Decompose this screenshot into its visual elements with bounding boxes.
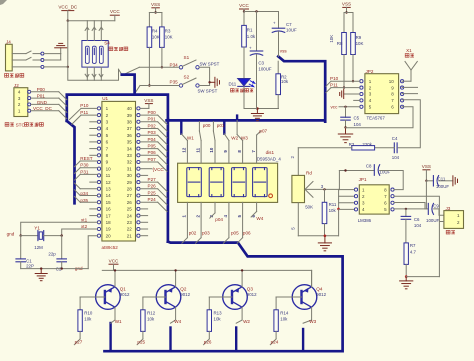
wire dis1 pin4 p05 <box>228 202 230 237</box>
svg-text:VCC: VCC <box>239 3 249 8</box>
wire R2 bottom <box>277 95 279 109</box>
svg-text:C6: C6 <box>414 217 420 222</box>
svg-text:R13: R13 <box>214 311 223 316</box>
junction dot <box>40 267 42 269</box>
junction dot <box>148 84 150 86</box>
J4 pin 1 wire <box>12 53 26 55</box>
wire pin10 P30 <box>80 167 97 169</box>
S4 element 1 <box>85 46 89 63</box>
S4 bottom wire 1 <box>86 67 88 80</box>
svg-text:P07: P07 <box>148 157 157 162</box>
label 供电输入 <box>5 74 9 78</box>
svg-text:P27: P27 <box>148 177 157 182</box>
wire R11 bottom <box>324 224 326 236</box>
wire J4 row3 to VCC_DC rail <box>44 66 68 68</box>
wire gnd stem <box>256 109 258 114</box>
svg-text:p03: p03 <box>202 231 210 236</box>
bus stub W1 <box>180 120 182 133</box>
wire P01 <box>140 121 158 123</box>
wire pin20 gnd <box>88 236 97 269</box>
ground <box>405 277 407 281</box>
svg-text:U1: U1 <box>102 96 108 101</box>
svg-text:P34: P34 <box>170 62 179 67</box>
wire VCC rail right end <box>311 270 313 287</box>
wire Q4 base <box>276 296 301 298</box>
svg-text:29: 29 <box>127 180 133 185</box>
svg-text:31: 31 <box>127 166 133 171</box>
svg-text:10k: 10k <box>84 317 92 322</box>
junction dot <box>161 66 163 68</box>
svg-text:P26: P26 <box>148 184 157 189</box>
svg-text:4.7: 4.7 <box>410 250 417 255</box>
wire J4 row2 stub <box>44 59 61 61</box>
ground <box>251 113 263 115</box>
wire R10 bottom p27 <box>79 331 81 339</box>
svg-text:12M: 12M <box>34 245 43 250</box>
wire dis1 pin9 W2 <box>228 141 230 164</box>
svg-text:W3: W3 <box>241 136 248 141</box>
wire Q4 collector <box>311 307 313 320</box>
U1 right pin contacts <box>137 107 140 110</box>
svg-text:p24: p24 <box>271 340 279 345</box>
svg-text:22p: 22p <box>48 252 56 257</box>
bus display horizontal <box>167 56 326 241</box>
label 预留STC下载接口 <box>5 123 9 127</box>
svg-text:25: 25 <box>127 207 133 212</box>
S4 element 2 <box>92 46 96 63</box>
svg-text:Q2: Q2 <box>180 286 187 291</box>
wire JP1 pin6 <box>394 203 425 209</box>
wire R12 bottom p25 <box>142 331 144 339</box>
wire P03 <box>140 134 158 136</box>
U1 pin17 stub <box>90 215 98 217</box>
S4 bottom wire 3 <box>100 67 102 80</box>
junction dot <box>243 10 245 12</box>
transistor Q4 <box>292 285 317 310</box>
U1 pins 3-8 stubs <box>90 121 98 123</box>
wire VCC rail <box>244 11 279 13</box>
svg-text:Q4: Q4 <box>316 286 323 291</box>
transistor Q1 <box>96 285 121 310</box>
wire to bus <box>119 69 122 74</box>
svg-text:R14: R14 <box>280 311 289 316</box>
capacitor C8 <box>339 170 374 172</box>
svg-text:P02: P02 <box>148 123 157 128</box>
capacitor C4 <box>393 143 395 153</box>
svg-text:100UF: 100UF <box>258 66 271 71</box>
wire Q3 collector <box>241 307 243 320</box>
wire VCC_DC vertical rail <box>67 21 69 67</box>
wire S1 S2 common <box>199 67 209 85</box>
svg-text:SW SPST: SW SPST <box>198 89 218 94</box>
svg-text:vss: vss <box>280 48 288 53</box>
Rd wiper arrow <box>305 182 313 190</box>
svg-text:28: 28 <box>127 187 133 192</box>
wire JP2 pin6 audio <box>346 107 414 128</box>
resistor R11 <box>324 189 326 202</box>
junction dot <box>337 208 340 211</box>
svg-text:R4: R4 <box>152 29 158 34</box>
svg-text:VSS: VSS <box>151 2 160 7</box>
svg-text:P24: P24 <box>148 197 157 202</box>
svg-text:vcc: vcc <box>331 105 339 110</box>
svg-text:220k: 220k <box>362 142 372 147</box>
svg-text:37: 37 <box>127 126 133 131</box>
wire R4 bottom <box>148 47 150 85</box>
wire C9 to J3 <box>434 209 444 215</box>
svg-text:R8: R8 <box>337 41 343 46</box>
bus Q4 stub <box>302 329 304 351</box>
svg-text:xt1: xt1 <box>81 217 88 222</box>
wire Q2 emitter <box>175 270 177 286</box>
bus display bottom <box>105 242 343 352</box>
bus P3x top <box>122 75 135 95</box>
svg-text:TEA5767: TEA5767 <box>367 115 386 120</box>
bus stub small <box>236 116 238 121</box>
resistor R1 <box>243 12 245 26</box>
svg-text:23: 23 <box>127 220 133 225</box>
wire R13 bottom p26 <box>208 331 210 339</box>
svg-text:X1: X1 <box>406 48 412 53</box>
svg-text:R3: R3 <box>165 29 171 34</box>
wire VCC rail <box>102 269 311 271</box>
svg-text:{VCC: {VCC <box>153 167 165 172</box>
svg-text:P06: P06 <box>148 150 157 155</box>
svg-text:xt2: xt2 <box>81 224 88 229</box>
svg-text:p02: p02 <box>189 231 197 236</box>
bus left jog <box>67 121 75 203</box>
svg-text:P35: P35 <box>170 79 179 84</box>
svg-text:14: 14 <box>106 193 112 198</box>
svg-text:22P: 22P <box>26 264 34 269</box>
wire net P11 <box>331 87 360 89</box>
wire JP1 pin5 <box>394 208 428 210</box>
junction dot <box>154 11 156 13</box>
svg-text:p27: p27 <box>75 340 83 345</box>
J4 pin 2 contact <box>41 59 44 62</box>
svg-text:D11: D11 <box>229 81 237 86</box>
junction dot <box>20 234 22 236</box>
wire net P34 <box>139 66 179 68</box>
wire gnd stem <box>40 269 42 274</box>
wire JP2 pin3 <box>345 93 360 95</box>
wire net P01 <box>31 97 59 99</box>
svg-text:p07: p07 <box>259 129 267 134</box>
svg-text:20: 20 <box>106 233 112 238</box>
svg-text:VSS: VSS <box>144 98 153 103</box>
svg-text:VCC: VCC <box>110 9 120 14</box>
wire pin2 P11 <box>81 114 97 116</box>
svg-text:104: 104 <box>354 122 362 127</box>
transistor Q3 <box>223 285 248 310</box>
wire P24 <box>140 201 158 203</box>
svg-text:100UF: 100UF <box>426 218 439 223</box>
svg-text:C9: C9 <box>433 203 439 208</box>
svg-text:10K: 10K <box>152 34 160 39</box>
svg-text:100UF: 100UF <box>436 184 449 189</box>
svg-text:W1: W1 <box>115 319 122 324</box>
svg-text:VSS: VSS <box>422 164 431 169</box>
junction dot <box>344 106 346 108</box>
junction dot <box>323 188 325 190</box>
svg-text:R11: R11 <box>329 202 337 207</box>
svg-text:104: 104 <box>414 223 422 228</box>
svg-text:C7: C7 <box>286 22 292 27</box>
svg-text:9012: 9012 <box>316 292 326 297</box>
capacitor C2 <box>61 236 63 259</box>
resistor R4 <box>148 13 150 27</box>
svg-text:W2: W2 <box>231 136 238 141</box>
junction dot <box>208 81 210 83</box>
wire dis1 pin5 p06 <box>242 202 244 237</box>
svg-text:10k: 10k <box>147 317 155 322</box>
svg-text:R10: R10 <box>84 311 93 316</box>
svg-text:11: 11 <box>195 147 200 152</box>
svg-text:S4: S4 <box>104 41 110 46</box>
wire R7 to J3 pin2 <box>406 276 439 278</box>
J4 pin 1 contact <box>41 52 44 55</box>
wire wiper <box>305 188 339 190</box>
svg-text:9012: 9012 <box>247 292 257 297</box>
JP1 pin contacts <box>354 188 357 191</box>
wire R1 to D11 <box>243 47 245 79</box>
svg-text:P25: P25 <box>148 190 157 195</box>
svg-text:10: 10 <box>209 147 214 152</box>
S4 top wire 2 <box>93 21 95 41</box>
svg-text:JP1: JP1 <box>359 177 367 182</box>
ground <box>55 47 67 49</box>
transistor Q2 <box>156 285 181 310</box>
svg-text:VCC_DC: VCC_DC <box>58 5 78 10</box>
wire JP1 pin4 <box>339 208 354 210</box>
JP2 pin8 stub <box>402 93 417 95</box>
junction dot <box>425 180 427 182</box>
capacitor C7 <box>278 12 280 29</box>
resistor R3 220k <box>375 147 395 149</box>
svg-text:33: 33 <box>127 153 133 158</box>
wire pin31 <box>140 168 152 170</box>
wire VCC_DC top rail <box>68 20 115 22</box>
resistor R7 <box>404 243 408 265</box>
junction dot <box>343 86 345 88</box>
wire P06 <box>140 154 158 156</box>
svg-text:J2: J2 <box>14 83 19 88</box>
svg-text:17: 17 <box>106 213 112 218</box>
svg-text:10UF: 10UF <box>286 28 297 33</box>
wire net P00 <box>31 91 59 93</box>
resistor R12 <box>141 310 145 332</box>
junction dot <box>345 11 347 13</box>
wire Q2 collector <box>175 307 177 320</box>
svg-text:16: 16 <box>106 207 112 212</box>
ground <box>452 176 454 186</box>
svg-text:at89c52: at89c52 <box>102 245 119 250</box>
svg-text:W4: W4 <box>256 216 263 221</box>
JP2 pin contacts <box>360 80 363 83</box>
resistor R2 <box>277 61 279 74</box>
wire net VCC_DC <box>31 110 59 112</box>
bus Q2 stub <box>169 328 171 352</box>
wire pin14 p34 <box>80 195 97 197</box>
svg-text:C3: C3 <box>258 60 264 65</box>
svg-text:10: 10 <box>106 166 112 171</box>
resistor R10 <box>78 310 82 332</box>
bus Q1 stub <box>109 323 111 351</box>
svg-text:50K: 50K <box>305 205 313 210</box>
svg-text:W3: W3 <box>309 319 316 324</box>
bus stub W2 <box>223 120 225 133</box>
wire pin13 <box>80 188 97 190</box>
7-segment digit 3 <box>232 168 247 197</box>
wire bottom rail <box>244 108 279 110</box>
svg-text:VCC: VCC <box>109 258 119 263</box>
wire VSS rail <box>149 12 162 14</box>
svg-text:32: 32 <box>127 160 133 165</box>
wire to pot <box>298 147 352 149</box>
svg-text:39: 39 <box>127 113 133 118</box>
corner mark <box>0 0 7 5</box>
wire JP1 pin1 <box>339 189 354 191</box>
junction dot <box>344 126 346 128</box>
svg-text:R9: R9 <box>356 35 362 40</box>
svg-text:P11: P11 <box>80 110 88 115</box>
svg-text:10K: 10K <box>356 41 364 46</box>
U1 left pin contacts <box>97 107 100 110</box>
wire to ground <box>210 81 215 83</box>
svg-text:1.0k: 1.0k <box>247 34 256 39</box>
svg-text:W2: W2 <box>243 319 250 324</box>
wire net P35 <box>140 85 179 87</box>
svg-text:22: 22 <box>127 227 133 232</box>
svg-text:W1: W1 <box>187 136 194 141</box>
wire net P10 <box>331 80 360 82</box>
svg-text:11: 11 <box>106 173 111 178</box>
U1 pin16 stub <box>90 208 98 210</box>
wire pin18 xt1 <box>21 222 98 235</box>
wire Q2 base <box>143 296 166 298</box>
svg-text:P10: P10 <box>330 76 339 81</box>
wire P25 <box>140 195 158 197</box>
svg-text:10K: 10K <box>329 35 334 43</box>
capacitor C1 <box>20 236 22 259</box>
svg-text:10: 10 <box>389 79 395 84</box>
7-segment digit 4 <box>253 168 268 197</box>
svg-text:R1: R1 <box>247 27 253 32</box>
wire JP2 pin7 <box>398 100 420 148</box>
svg-text:S1: S1 <box>184 55 190 60</box>
wire dis1 pin12 W1 <box>186 141 188 164</box>
resistor R9 <box>352 13 354 33</box>
svg-text:10k: 10k <box>281 79 289 84</box>
wire P07 <box>140 161 158 163</box>
wire dis1 pin7 p07 <box>256 135 258 163</box>
wire VSS to audio <box>425 181 427 209</box>
wire Q3 emitter <box>241 270 243 286</box>
wire P27 <box>140 181 158 183</box>
svg-text:VSS: VSS <box>342 2 351 7</box>
svg-text:38: 38 <box>127 120 133 125</box>
capacitor C5 <box>345 107 347 117</box>
svg-text:9012: 9012 <box>120 292 130 297</box>
svg-text:10k: 10k <box>329 208 337 213</box>
svg-text:STC: STC <box>16 122 26 127</box>
svg-text:P10: P10 <box>80 103 89 108</box>
junction dot <box>67 66 69 68</box>
svg-text:36: 36 <box>127 133 133 138</box>
svg-text:p05: p05 <box>231 231 239 236</box>
switch S4 <box>82 41 108 68</box>
junction dot <box>256 107 259 110</box>
wire pin1 P10 <box>81 107 97 109</box>
svg-text:P31: P31 <box>80 169 89 174</box>
svg-text:13: 13 <box>106 187 112 192</box>
wire P26 <box>140 188 158 190</box>
J4 pin 3 contact <box>41 65 44 68</box>
J4 pin 2 wire <box>12 59 26 61</box>
wire Q3 base <box>209 296 232 298</box>
svg-text:12: 12 <box>182 147 187 152</box>
U1 pins 25-21 stubs <box>140 208 148 210</box>
svg-text:LM386: LM386 <box>358 218 372 223</box>
svg-text:Q3: Q3 <box>247 286 254 291</box>
S4 top wire 3 <box>100 21 102 41</box>
resistor R3 <box>161 13 163 27</box>
U1 pin30 stub <box>140 174 148 176</box>
wire dis1 pin3 p04 <box>214 202 216 213</box>
svg-text:R12: R12 <box>147 311 156 316</box>
wire Q1 collector <box>114 307 116 320</box>
svg-text:40: 40 <box>127 106 133 111</box>
wire dis1 pin11 p00 <box>200 141 202 164</box>
svg-text:R3: R3 <box>349 142 355 147</box>
junction dot <box>405 275 408 278</box>
junction dot <box>67 20 69 22</box>
wire J4 row1 to ground <box>44 53 61 55</box>
S4 bottom wire 2 <box>93 67 95 80</box>
capacitor C6 <box>405 209 407 217</box>
svg-text:P05: P05 <box>148 144 157 149</box>
wire R8 bottom <box>343 55 345 88</box>
wire R9 bottom <box>352 55 354 82</box>
svg-text:P01: P01 <box>148 117 157 122</box>
svg-text:9012: 9012 <box>180 292 190 297</box>
svg-text:10k: 10k <box>214 317 222 322</box>
svg-text:P11: P11 <box>330 82 338 87</box>
svg-text:C8: C8 <box>366 164 372 169</box>
svg-text:P04: P04 <box>148 137 157 142</box>
wire JP2 pin4 stub <box>354 99 360 101</box>
wire pin19 xt2 <box>62 229 98 236</box>
U1 pin12 stub <box>90 181 98 183</box>
wire VSS rail <box>344 12 353 14</box>
capacitor C9 <box>427 203 429 214</box>
wire pin9 REST <box>80 160 97 162</box>
wire P00 <box>140 114 158 116</box>
capacitor C11 <box>426 180 433 182</box>
wire dis1 pin8 W3 <box>242 141 244 164</box>
wire Q1 emitter <box>114 270 116 286</box>
svg-text:21: 21 <box>127 233 133 238</box>
wire Q4 emitter <box>311 270 313 286</box>
svg-text:+: + <box>249 46 252 51</box>
ground <box>214 77 216 87</box>
wire P04 <box>140 141 158 143</box>
bus Q3 stub <box>235 328 237 352</box>
wire pin15 p35 <box>80 201 97 203</box>
svg-text:SW SPST: SW SPST <box>200 61 220 66</box>
ground <box>35 273 47 275</box>
svg-text:C4: C4 <box>392 136 398 141</box>
